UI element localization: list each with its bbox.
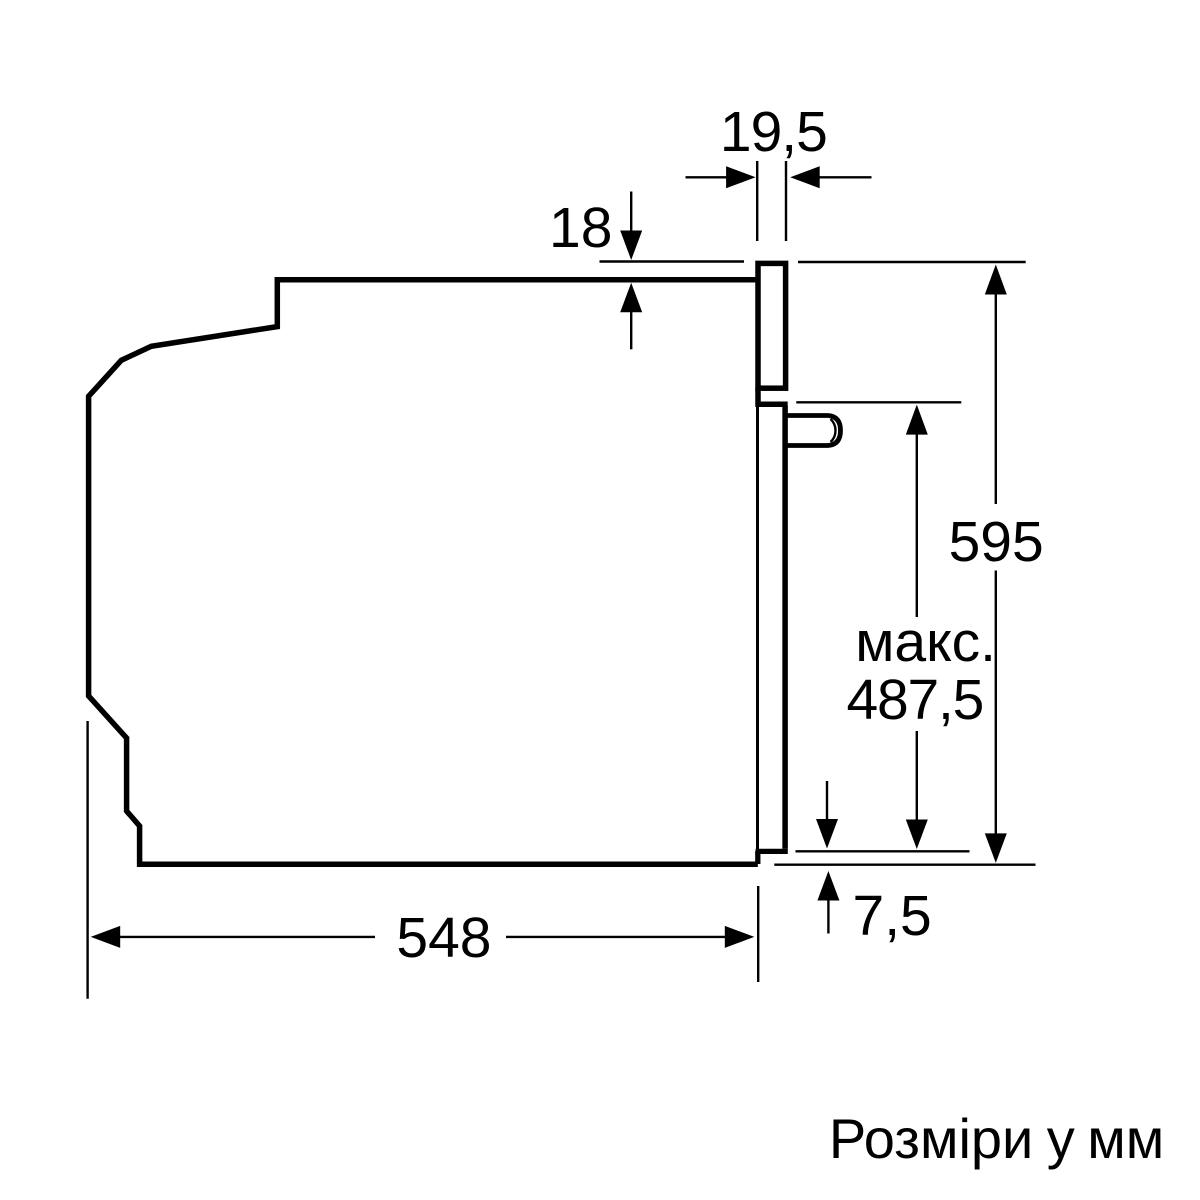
dim 7,5 down arrow [826,781,828,820]
dim 548 right extension line [757,886,759,982]
dim 19,5 left arrow [686,176,728,178]
svg-text:7,5: 7,5 [853,884,932,948]
svg-text:595: 595 [949,510,1044,574]
svg-text:19,5: 19,5 [720,100,827,164]
door bottom edge [756,849,788,854]
dim 18 up arrow [620,283,642,313]
svg-text:у: у [1047,1107,1075,1170]
dim 19,5 extension line right [785,161,787,241]
door lower panel right edge [782,406,788,849]
dim 595 top arrow [985,265,1007,295]
door handle [783,416,841,446]
dim 548 left arrow [91,926,121,948]
oven door upper panel [758,263,786,388]
svg-text:548: 548 [396,906,491,970]
svg-text:18: 18 [549,196,612,260]
svg-text:487,5: 487,5 [847,668,984,732]
svg-text:макс.: макс. [855,610,996,674]
dim 487,5 bottom arrow [916,731,918,820]
dim 548 right arrow [506,936,726,938]
dim 19,5 extension line left [756,161,758,241]
svg-text:мм: мм [1087,1107,1164,1170]
dim 595 top extension line [798,261,1026,263]
dim 19,5 right arrow [819,176,872,178]
dim 548 left extension line [86,721,88,999]
dim 18 down arrow [630,192,632,233]
dim 487,5 top extension line [796,401,961,403]
oven body outline [89,280,758,865]
svg-text:Розміри: Розміри [829,1107,1033,1170]
dim 7,5 up arrow [817,871,839,901]
handle inner arc [831,419,836,442]
dim 487,5 bottom extension line A [796,850,970,852]
dim 595 bottom arrow [995,571,997,835]
dim 595 bottom extension line [774,864,1035,866]
door seam band [755,388,787,404]
dim 18 extension line [600,260,745,262]
dim 487,5 top arrow [906,405,928,435]
door bottom connector [755,851,760,864]
door lower panel left edge [756,406,759,850]
